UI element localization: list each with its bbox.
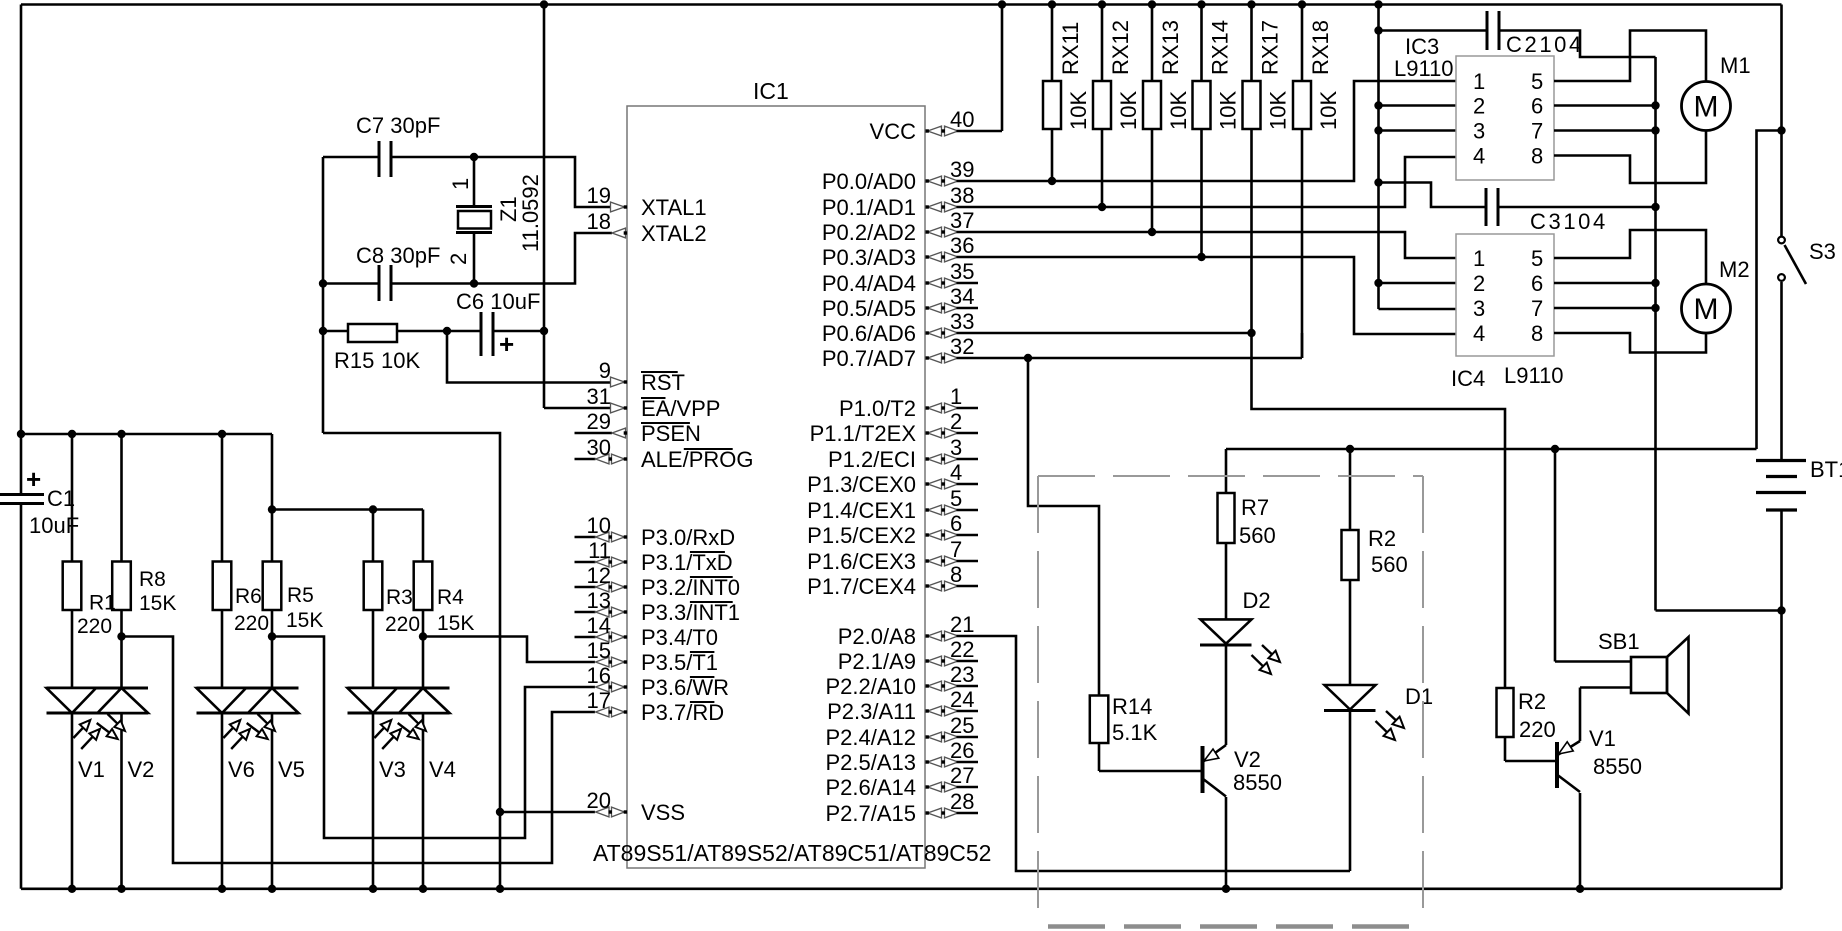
svg-text:4: 4: [1473, 321, 1485, 346]
svg-text:RX17: RX17: [1258, 20, 1283, 75]
svg-text:M: M: [1694, 293, 1719, 326]
svg-text:5: 5: [1531, 246, 1543, 271]
svg-text:1: 1: [950, 384, 962, 409]
svg-text:19: 19: [587, 183, 611, 208]
svg-text:SB1: SB1: [1598, 629, 1640, 654]
svg-text:VCC: VCC: [870, 119, 917, 144]
svg-text:IC4: IC4: [1451, 366, 1485, 391]
svg-text:R2: R2: [1368, 526, 1396, 551]
svg-text:V1: V1: [1589, 726, 1616, 751]
svg-text:R6: R6: [235, 585, 262, 608]
svg-text:C6 10uF: C6 10uF: [456, 289, 540, 314]
svg-text:2: 2: [446, 253, 471, 265]
svg-text:220: 220: [385, 613, 420, 636]
svg-text:11.0592: 11.0592: [518, 174, 543, 252]
svg-text:16: 16: [587, 663, 611, 688]
svg-text:XTAL2: XTAL2: [641, 221, 707, 246]
svg-text:BT1: BT1: [1810, 457, 1842, 482]
svg-text:8: 8: [1531, 321, 1543, 346]
svg-text:P3.3/INT1: P3.3/INT1: [641, 600, 740, 625]
svg-text:D2: D2: [1243, 588, 1271, 613]
svg-text:P3.4/T0: P3.4/T0: [641, 625, 718, 650]
svg-text:10: 10: [587, 513, 611, 538]
svg-text:8: 8: [950, 562, 962, 587]
svg-text:P2.2/A10: P2.2/A10: [825, 674, 916, 699]
svg-text:P3.2/INT0: P3.2/INT0: [641, 575, 740, 600]
svg-text:P0.2/AD2: P0.2/AD2: [822, 220, 916, 245]
svg-text:RX14: RX14: [1208, 20, 1233, 75]
svg-text:26: 26: [950, 738, 974, 763]
svg-text:11: 11: [588, 538, 611, 563]
svg-text:RX18: RX18: [1308, 20, 1333, 75]
svg-text:V5: V5: [278, 757, 305, 782]
svg-text:4: 4: [1473, 144, 1485, 169]
svg-text:39: 39: [950, 157, 974, 182]
svg-text:8550: 8550: [1593, 754, 1642, 779]
svg-text:8: 8: [1531, 144, 1543, 169]
svg-text:12: 12: [587, 563, 611, 588]
svg-text:32: 32: [950, 334, 974, 359]
svg-text:P1.1/T2EX: P1.1/T2EX: [810, 421, 917, 446]
svg-text:L9110: L9110: [1504, 363, 1564, 388]
svg-text:XTAL1: XTAL1: [641, 195, 707, 220]
svg-text:S3: S3: [1809, 239, 1836, 264]
svg-text:PSEN: PSEN: [641, 421, 701, 446]
svg-text:8550: 8550: [1233, 770, 1282, 795]
svg-text:V3: V3: [379, 757, 406, 782]
svg-text:P1.7/CEX4: P1.7/CEX4: [807, 574, 916, 599]
svg-text:V6: V6: [228, 757, 255, 782]
svg-text:RX13: RX13: [1158, 20, 1183, 75]
svg-text:P3.1/TxD: P3.1/TxD: [641, 550, 733, 575]
svg-text:1: 1: [448, 178, 473, 190]
svg-text:22: 22: [950, 637, 974, 662]
svg-text:21: 21: [950, 612, 974, 637]
svg-text:R8: R8: [139, 568, 166, 591]
svg-text:R5: R5: [287, 584, 314, 607]
svg-text:IC1: IC1: [753, 78, 789, 104]
svg-text:P0.7/AD7: P0.7/AD7: [822, 346, 916, 371]
svg-text:C7 30pF: C7 30pF: [356, 113, 440, 138]
svg-text:29: 29: [587, 409, 611, 434]
svg-text:220: 220: [1519, 717, 1556, 742]
svg-text:10K: 10K: [1316, 91, 1341, 130]
svg-text:3: 3: [1473, 296, 1485, 321]
svg-text:V1: V1: [78, 757, 105, 782]
svg-text:40: 40: [950, 107, 974, 132]
svg-text:P2.3/A11: P2.3/A11: [827, 699, 916, 724]
svg-text:7: 7: [950, 537, 962, 562]
svg-text:2: 2: [1473, 94, 1485, 119]
svg-text:35: 35: [950, 259, 974, 284]
svg-text:P0.0/AD0: P0.0/AD0: [822, 169, 916, 194]
svg-text:38: 38: [950, 183, 974, 208]
svg-text:9: 9: [599, 358, 611, 383]
svg-text:M: M: [1694, 91, 1719, 124]
svg-text:P1.6/CEX3: P1.6/CEX3: [807, 549, 916, 574]
svg-text:P1.3/CEX0: P1.3/CEX0: [807, 472, 916, 497]
svg-text:P1.2/ECI: P1.2/ECI: [828, 447, 916, 472]
svg-text:6: 6: [950, 511, 962, 536]
svg-text:AT89S51/AT89S52/AT89C51/AT89C5: AT89S51/AT89S52/AT89C51/AT89C52: [593, 840, 991, 866]
svg-text:20: 20: [587, 788, 611, 813]
svg-text:P0.5/AD5: P0.5/AD5: [822, 296, 916, 321]
svg-text:P3.7/RD: P3.7/RD: [641, 700, 724, 725]
svg-text:+: +: [499, 329, 514, 359]
svg-text:30: 30: [587, 435, 611, 460]
svg-text:17: 17: [587, 688, 611, 713]
svg-text:5: 5: [950, 486, 962, 511]
svg-text:10K: 10K: [1116, 91, 1141, 130]
svg-text:31: 31: [587, 384, 611, 409]
svg-text:10K: 10K: [1166, 91, 1191, 130]
svg-text:P3.6/WR: P3.6/WR: [641, 675, 729, 700]
svg-text:27: 27: [950, 763, 974, 788]
svg-text:5.1K: 5.1K: [1112, 720, 1158, 745]
svg-text:P1.0/T2: P1.0/T2: [839, 396, 916, 421]
svg-text:R14: R14: [1112, 694, 1152, 719]
svg-text:3: 3: [1473, 119, 1485, 144]
svg-text:14: 14: [587, 613, 611, 638]
svg-text:M2: M2: [1719, 257, 1750, 282]
svg-text:15K: 15K: [139, 592, 176, 615]
svg-text:R15: R15: [334, 348, 374, 373]
svg-text:220: 220: [77, 615, 112, 638]
svg-text:7: 7: [1531, 119, 1543, 144]
svg-text:RST: RST: [641, 370, 685, 395]
svg-text:P1.5/CEX2: P1.5/CEX2: [807, 523, 916, 548]
svg-text:34: 34: [950, 284, 974, 309]
svg-text:10K: 10K: [381, 348, 420, 373]
svg-text:6: 6: [1531, 94, 1543, 119]
svg-text:RX11: RX11: [1058, 22, 1083, 75]
svg-text:P0.1/AD1: P0.1/AD1: [822, 195, 916, 220]
svg-text:R2: R2: [1518, 689, 1546, 714]
svg-text:M1: M1: [1720, 53, 1751, 78]
svg-text:220: 220: [234, 612, 269, 635]
svg-text:3: 3: [950, 435, 962, 460]
svg-text:28: 28: [950, 789, 974, 814]
svg-text:1: 1: [1473, 69, 1485, 94]
svg-text:EA/VPP: EA/VPP: [641, 396, 720, 421]
svg-text:P3.0/RxD: P3.0/RxD: [641, 525, 735, 550]
svg-text:P2.4/A12: P2.4/A12: [825, 725, 916, 750]
svg-text:24: 24: [950, 687, 974, 712]
svg-text:V2: V2: [128, 757, 155, 782]
svg-text:P0.3/AD3: P0.3/AD3: [822, 245, 916, 270]
svg-text:P3.5/T1: P3.5/T1: [641, 650, 718, 675]
svg-text:L9110: L9110: [1394, 56, 1454, 81]
svg-text:C3104: C3104: [1530, 209, 1608, 234]
svg-text:P2.5/A13: P2.5/A13: [825, 750, 916, 775]
svg-text:R3: R3: [386, 586, 413, 609]
svg-text:V2: V2: [1234, 747, 1261, 772]
svg-text:10K: 10K: [1266, 91, 1291, 130]
svg-text:23: 23: [950, 662, 974, 687]
svg-text:P0.4/AD4: P0.4/AD4: [822, 271, 916, 296]
svg-text:R4: R4: [437, 586, 464, 609]
svg-text:6: 6: [1531, 271, 1543, 296]
svg-text:P1.4/CEX1: P1.4/CEX1: [807, 498, 916, 523]
svg-text:RX12: RX12: [1108, 20, 1133, 75]
svg-text:P2.7/A15: P2.7/A15: [825, 801, 916, 826]
svg-text:10K: 10K: [1216, 91, 1241, 130]
svg-text:D1: D1: [1405, 684, 1433, 709]
svg-text:2: 2: [1473, 271, 1485, 296]
svg-text:C8 30pF: C8 30pF: [356, 243, 440, 268]
svg-text:P2.6/A14: P2.6/A14: [825, 775, 916, 800]
svg-text:37: 37: [950, 208, 974, 233]
svg-text:15: 15: [587, 638, 611, 663]
svg-text:P2.1/A9: P2.1/A9: [838, 649, 916, 674]
svg-text:5: 5: [1531, 69, 1543, 94]
svg-text:ALE/PROG: ALE/PROG: [641, 447, 753, 472]
svg-text:25: 25: [950, 713, 974, 738]
svg-text:2: 2: [950, 409, 962, 434]
svg-text:1: 1: [1473, 246, 1485, 271]
svg-text:15K: 15K: [286, 609, 323, 632]
svg-text:10K: 10K: [1066, 91, 1091, 130]
svg-text:7: 7: [1531, 296, 1543, 321]
svg-text:36: 36: [950, 233, 974, 258]
svg-text:R7: R7: [1241, 495, 1269, 520]
svg-text:V4: V4: [429, 757, 456, 782]
svg-text:18: 18: [587, 209, 611, 234]
svg-text:R1: R1: [89, 592, 116, 615]
svg-text:P2.0/A8: P2.0/A8: [838, 624, 916, 649]
svg-text:+: +: [26, 464, 41, 494]
svg-text:C2104: C2104: [1506, 32, 1584, 57]
svg-text:560: 560: [1239, 523, 1276, 548]
svg-text:4: 4: [950, 460, 962, 485]
svg-text:VSS: VSS: [641, 800, 685, 825]
svg-text:560: 560: [1371, 552, 1408, 577]
svg-text:15K: 15K: [437, 612, 474, 635]
svg-text:33: 33: [950, 309, 974, 334]
svg-text:P0.6/AD6: P0.6/AD6: [822, 321, 916, 346]
svg-text:13: 13: [587, 588, 611, 613]
